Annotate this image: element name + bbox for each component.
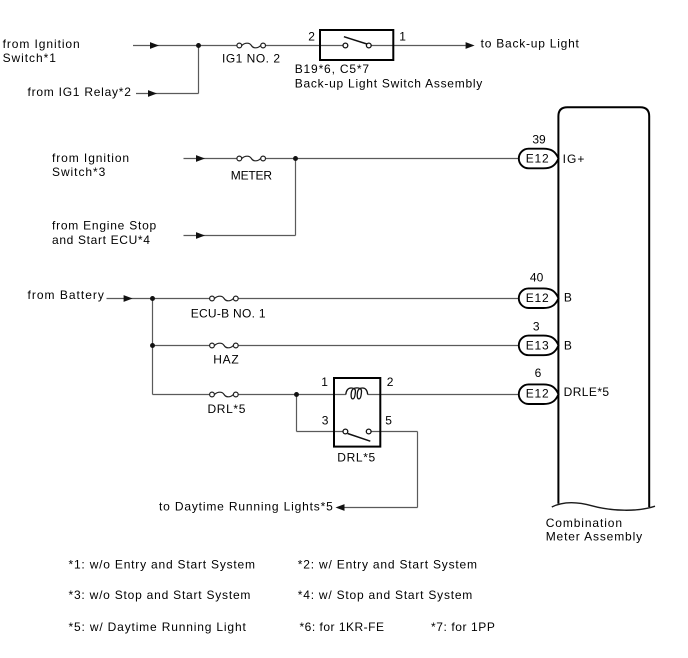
svg-text:and Start ECU*4: and Start ECU*4 (52, 233, 150, 247)
svg-text:B: B (564, 338, 572, 352)
svg-text:5: 5 (385, 414, 392, 428)
svg-text:*5: w/ Daytime Running Light: *5: w/ Daytime Running Light (69, 620, 247, 634)
svg-text:3: 3 (322, 414, 329, 428)
svg-text:to Daytime Running Lights*5: to Daytime Running Lights*5 (159, 500, 333, 514)
svg-text:B: B (564, 291, 572, 305)
svg-text:1: 1 (399, 29, 406, 43)
svg-text:E12: E12 (526, 152, 549, 166)
svg-text:HAZ: HAZ (213, 353, 239, 367)
svg-text:IG+: IG+ (563, 152, 585, 166)
svg-text:Back-up Light Switch Assembly: Back-up Light Switch Assembly (295, 77, 483, 91)
svg-text:E13: E13 (526, 339, 549, 353)
svg-text:E12: E12 (526, 291, 549, 305)
svg-text:6: 6 (535, 366, 542, 380)
svg-text:DRL*5: DRL*5 (208, 402, 246, 416)
svg-text:*6: for 1KR-FE: *6: for 1KR-FE (300, 620, 385, 634)
svg-text:Switch*1: Switch*1 (3, 51, 57, 65)
svg-text:METER: METER (231, 169, 273, 183)
svg-text:40: 40 (530, 271, 544, 285)
svg-text:IG1 NO. 2: IG1 NO. 2 (222, 52, 280, 66)
svg-text:39: 39 (532, 133, 546, 147)
svg-text:*2: w/ Entry and Start System: *2: w/ Entry and Start System (298, 558, 477, 572)
svg-text:2: 2 (387, 375, 394, 389)
svg-text:*7: for 1PP: *7: for 1PP (431, 620, 495, 634)
svg-text:from Engine Stop: from Engine Stop (52, 218, 157, 232)
svg-text:from Battery: from Battery (28, 288, 104, 302)
svg-text:DRLE*5: DRLE*5 (564, 385, 610, 399)
svg-text:Meter Assembly: Meter Assembly (546, 529, 642, 543)
svg-text:Switch*3: Switch*3 (52, 165, 106, 179)
svg-text:B19*6, C5*7: B19*6, C5*7 (295, 62, 370, 76)
svg-text:from Ignition: from Ignition (52, 151, 129, 165)
svg-text:Combination: Combination (546, 516, 622, 530)
svg-text:*3: w/o Stop and Start System: *3: w/o Stop and Start System (69, 588, 251, 602)
svg-text:E12: E12 (526, 386, 549, 400)
svg-text:ECU-B NO. 1: ECU-B NO. 1 (191, 306, 266, 320)
svg-text:DRL*5: DRL*5 (337, 451, 375, 465)
svg-text:*4: w/ Stop and Start System: *4: w/ Stop and Start System (298, 588, 473, 602)
svg-text:2: 2 (308, 29, 315, 43)
svg-text:3: 3 (533, 319, 540, 333)
svg-text:from Ignition: from Ignition (3, 37, 80, 51)
svg-text:to Back-up Light: to Back-up Light (481, 37, 580, 51)
svg-text:from IG1 Relay*2: from IG1 Relay*2 (28, 85, 132, 99)
svg-text:1: 1 (321, 375, 328, 389)
svg-text:*1: w/o Entry and Start System: *1: w/o Entry and Start System (69, 558, 256, 572)
